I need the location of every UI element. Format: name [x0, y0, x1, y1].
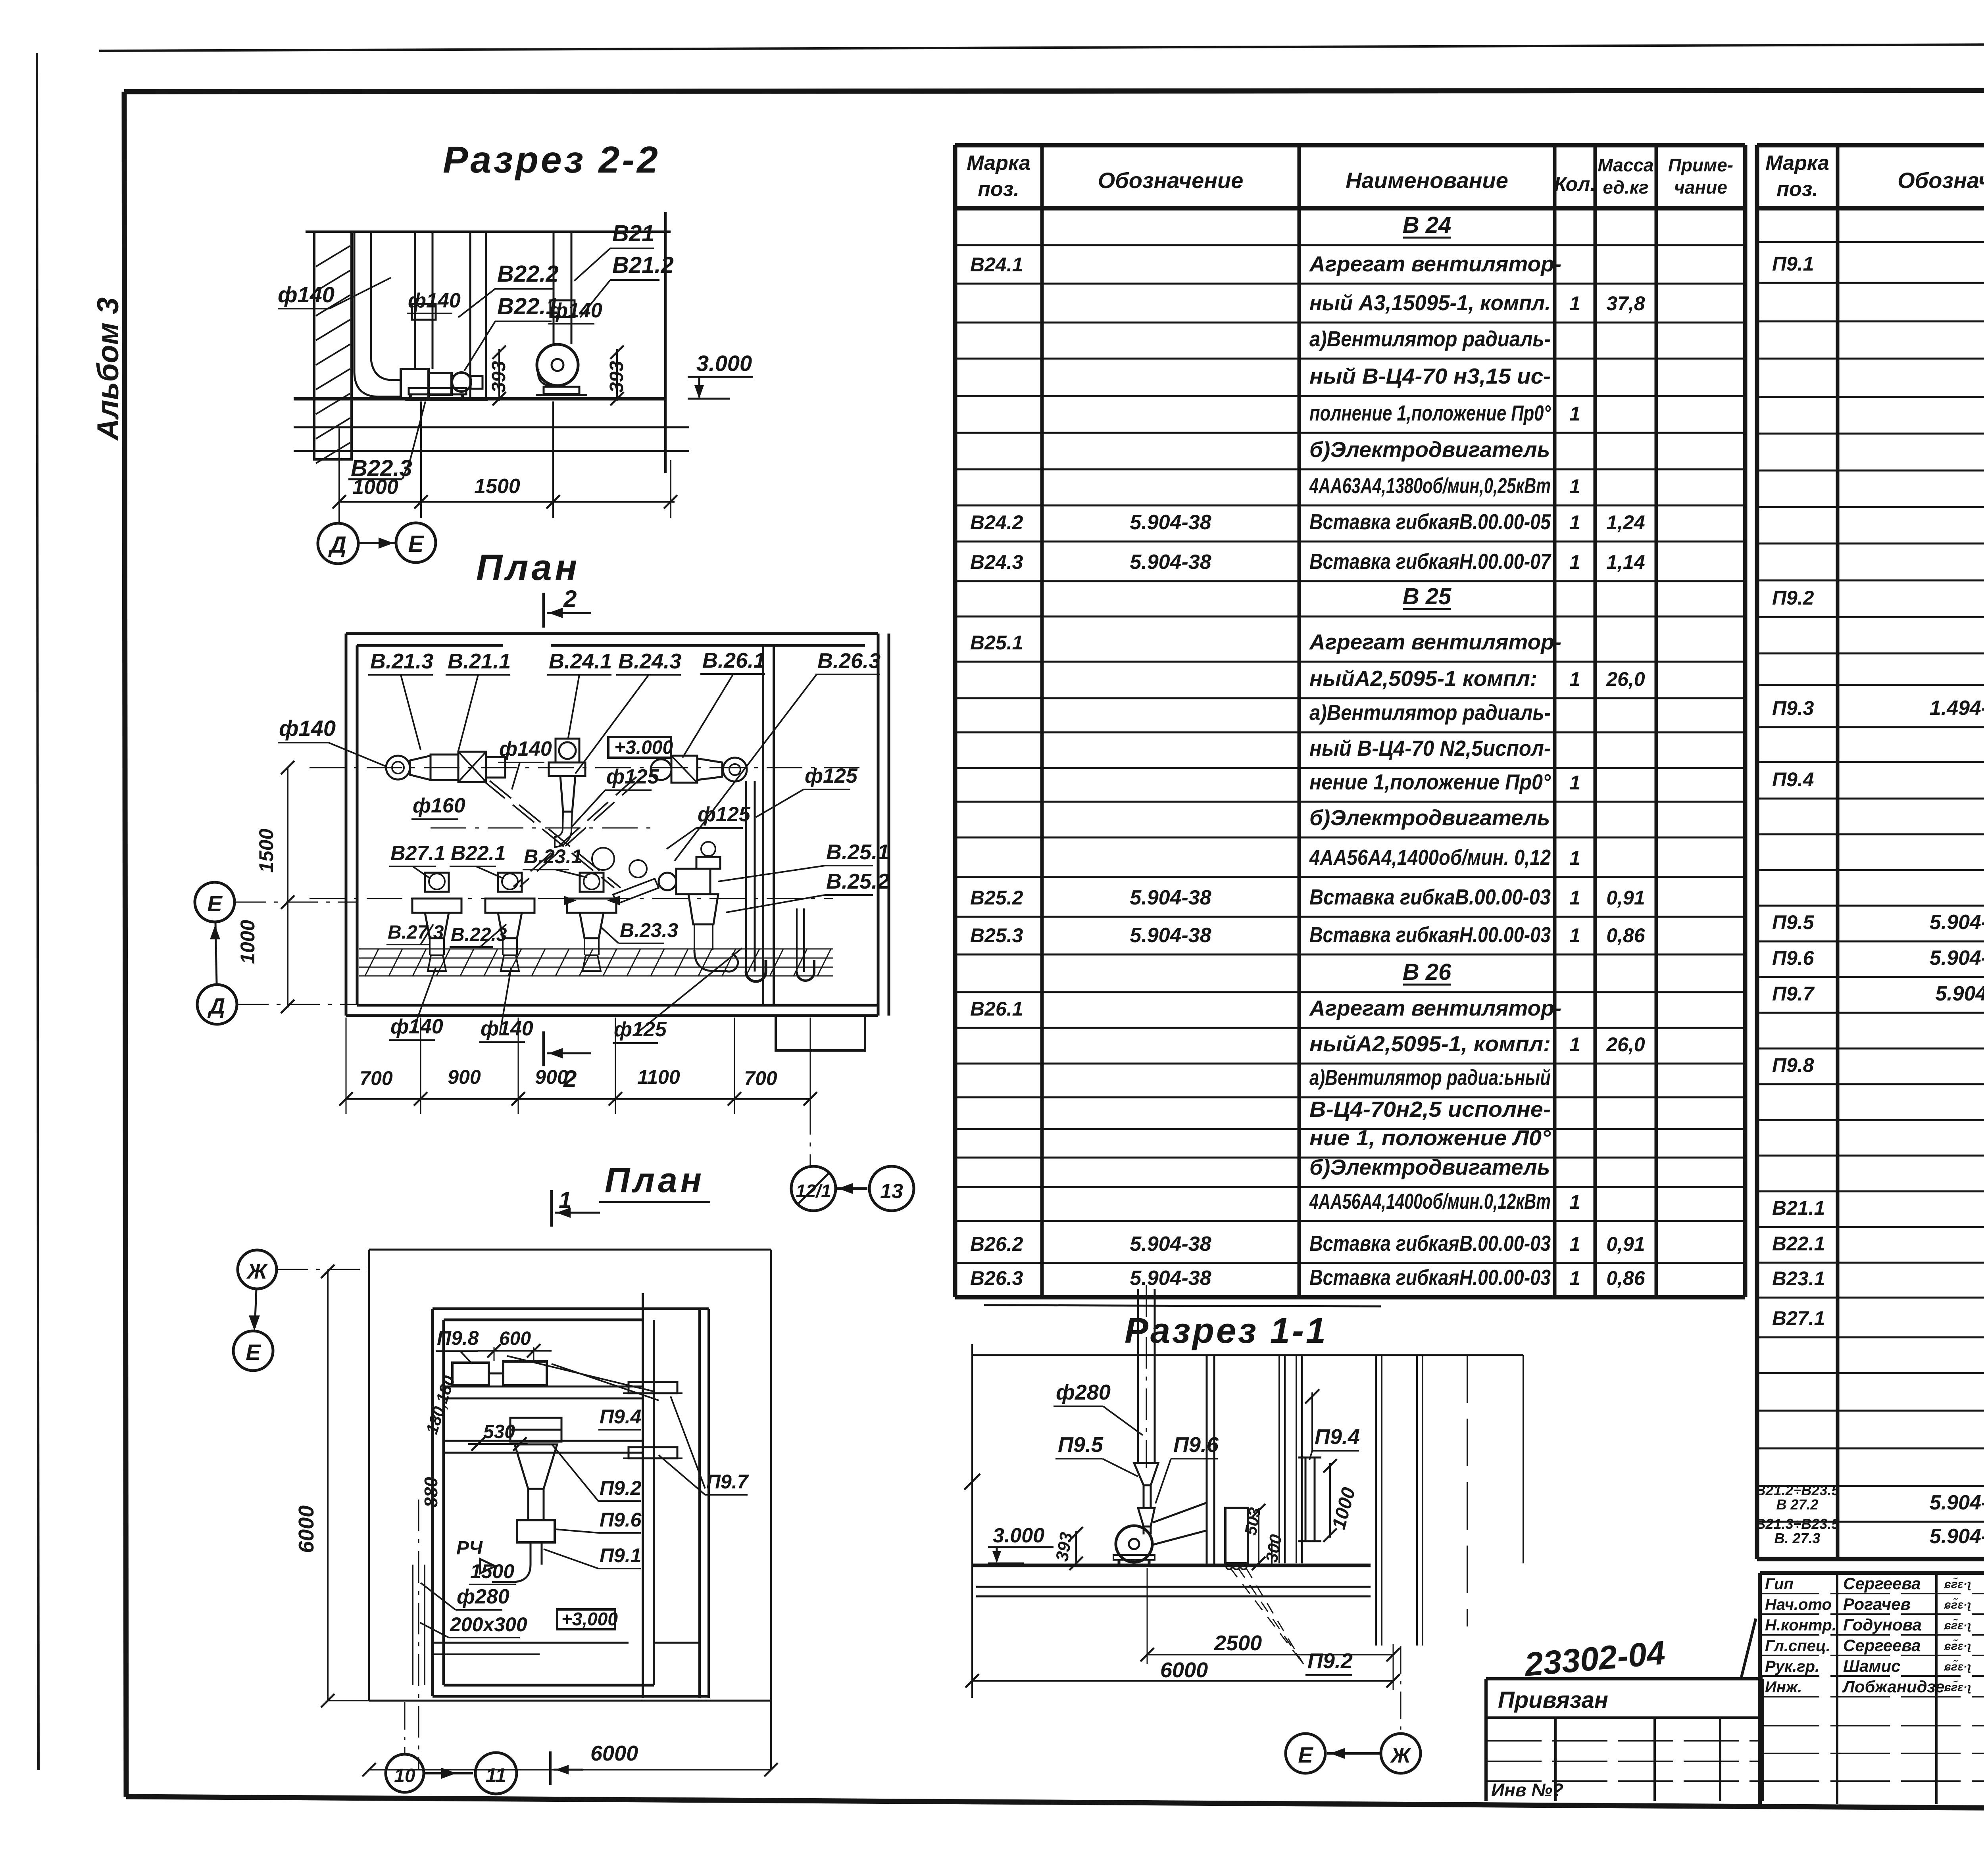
svg-text:1: 1: [1569, 1033, 1580, 1056]
svg-text:поз.: поз.: [978, 178, 1019, 201]
svg-text:5.904-38: 5.904-38: [1930, 1525, 1984, 1548]
svg-text:ɕƨ̃ɛ·ʅ: ɕƨ̃ɛ·ʅ: [1944, 1619, 1971, 1632]
svg-text:26,0: 26,0: [1606, 1033, 1645, 1056]
damper P9.4: [1305, 1457, 1315, 1541]
dim 6000: [972, 1680, 1393, 1682]
dim chain 700-900-900-1100-700: [346, 1098, 810, 1100]
svg-text:П9.4: П9.4: [1315, 1425, 1360, 1449]
svg-text:П9.6: П9.6: [600, 1509, 642, 1531]
floor line: [294, 397, 667, 401]
svg-text:0,91: 0,91: [1606, 887, 1645, 909]
svg-text:1: 1: [1569, 1267, 1580, 1289]
svg-text:5.904-38: 5.904-38: [1930, 1491, 1984, 1514]
svg-text:П9.7: П9.7: [706, 1471, 749, 1493]
axis circle 13: [869, 1166, 914, 1211]
svg-text:+3.000: +3.000: [614, 737, 673, 758]
svg-text:П9.7: П9.7: [1772, 983, 1815, 1005]
svg-text:В.24.3: В.24.3: [618, 649, 681, 673]
axis circle E: [1286, 1734, 1325, 1773]
slash mark: [1741, 1619, 1756, 1678]
axis circle 11: [475, 1753, 517, 1794]
svg-text:П9.2: П9.2: [1307, 1649, 1353, 1673]
svg-text:Гл.спец.: Гл.спец.: [1765, 1637, 1830, 1655]
svg-text:Привязан: Привязан: [1498, 1687, 1608, 1713]
svg-text:В21.2÷В23.5: В21.2÷В23.5: [1755, 1482, 1840, 1498]
svg-text:П9.2: П9.2: [1772, 587, 1814, 609]
svg-text:В.27.3: В.27.3: [388, 922, 444, 943]
svg-text:ɕƨ̃ɛ·ʅ: ɕƨ̃ɛ·ʅ: [1944, 1598, 1971, 1611]
svg-text:2: 2: [563, 586, 577, 612]
fan unit V24.1: [556, 739, 579, 762]
svg-text:Е: Е: [246, 1340, 261, 1365]
svg-text:1: 1: [1569, 475, 1580, 497]
vertical dim 6000: [327, 1269, 329, 1701]
svg-text:В22.2: В22.2: [497, 261, 559, 287]
svg-text:1: 1: [1569, 403, 1580, 425]
left specification table: [955, 145, 1745, 1297]
privyazan box: [1486, 1679, 1763, 1801]
svg-text:3.000: 3.000: [696, 351, 752, 376]
svg-text:5.904-4: 5.904-4: [1935, 982, 1984, 1005]
svg-text:Е: Е: [1298, 1742, 1313, 1767]
svg-text:В21.2: В21.2: [612, 252, 674, 278]
svg-text:900: 900: [448, 1066, 481, 1088]
svg-text:1: 1: [1569, 1191, 1580, 1213]
svg-text:В21.1: В21.1: [1772, 1197, 1825, 1219]
svg-text:В.21.3: В.21.3: [370, 649, 433, 673]
svg-text:полнение 1,положение Пр0°: полнение 1,положение Пр0°: [1309, 401, 1551, 425]
svg-text:В26.3: В26.3: [970, 1267, 1023, 1289]
svg-text:ф140: ф140: [408, 289, 461, 312]
axis circle D: [197, 985, 237, 1024]
svg-text:Разрез 2-2: Разрез 2-2: [443, 139, 660, 181]
svg-text:П9.1: П9.1: [1772, 253, 1814, 275]
lower plan drawing: [233, 1187, 778, 1794]
right specification table: [1755, 145, 1984, 1559]
svg-text:ние 1, положение Л0°: ние 1, положение Л0°: [1309, 1125, 1551, 1150]
axis circle Zh: [1381, 1734, 1421, 1773]
svg-text:Ж: Ж: [246, 1260, 268, 1283]
svg-text:1: 1: [1569, 924, 1580, 947]
svg-text:Обозначение: Обозначение: [1897, 168, 1984, 193]
svg-text:6000: 6000: [1160, 1658, 1208, 1682]
svg-text:В24.1: В24.1: [970, 253, 1023, 276]
svg-text:1500: 1500: [474, 475, 520, 498]
svg-text:Рук.гр.: Рук.гр.: [1765, 1658, 1819, 1675]
svg-text:5.904-38: 5.904-38: [1930, 947, 1984, 970]
svg-text:б)Электродвигатель: б)Электродвигатель: [1309, 437, 1550, 462]
svg-text:В.23.3: В.23.3: [620, 919, 679, 941]
svg-text:37,8: 37,8: [1606, 292, 1645, 315]
svg-text:В25.3: В25.3: [970, 924, 1023, 947]
axis circle E: [233, 1331, 273, 1371]
svg-text:1: 1: [1569, 551, 1580, 573]
svg-text:26,0: 26,0: [1606, 668, 1645, 690]
svg-text:Лобжанидзе: Лобжанидзе: [1842, 1677, 1944, 1696]
svg-text:В22.1: В22.1: [451, 842, 506, 865]
svg-text:ф140: ф140: [481, 1017, 533, 1040]
svg-text:В25.1: В25.1: [970, 632, 1023, 654]
section 1-1 drawing: [964, 1285, 1523, 1773]
svg-text:1100: 1100: [637, 1066, 680, 1088]
room walls: [346, 632, 878, 635]
svg-text:Е: Е: [207, 891, 223, 916]
svg-text:5.904-38: 5.904-38: [1130, 551, 1211, 574]
duct pipe V21: [553, 232, 555, 344]
svg-text:В24.2: В24.2: [970, 511, 1023, 534]
svg-text:П9.8: П9.8: [1772, 1054, 1814, 1076]
svg-text:В-Ц4-70н2,5 исполне-: В-Ц4-70н2,5 исполне-: [1309, 1097, 1551, 1121]
fan P9.1: [1116, 1526, 1152, 1562]
svg-text:В27.1: В27.1: [390, 842, 446, 865]
svg-text:700: 700: [360, 1067, 393, 1089]
drawing frame: [124, 90, 1984, 92]
svg-text:Ж: Ж: [1390, 1744, 1412, 1767]
svg-text:П9.8: П9.8: [437, 1327, 479, 1349]
svg-text:Шамис: Шамис: [1843, 1657, 1901, 1675]
svg-text:В.22.3: В.22.3: [451, 924, 507, 945]
svg-text:В.25.1: В.25.1: [826, 840, 889, 864]
axis circle E: [195, 882, 235, 922]
svg-text:Рогачев: Рогачев: [1843, 1595, 1911, 1613]
svg-text:5.904-38: 5.904-38: [1930, 911, 1984, 934]
svg-text:В.26.3: В.26.3: [817, 649, 880, 673]
svg-text:ныйА2,5095-1 компл:: ныйА2,5095-1 компл:: [1309, 666, 1537, 691]
svg-text:П9.2: П9.2: [600, 1477, 642, 1499]
svg-text:В. 27.3: В. 27.3: [1774, 1530, 1820, 1546]
svg-text:Вставка гибкаяН.00.00-07: Вставка гибкаяН.00.00-07: [1309, 549, 1551, 574]
svg-text:ф140: ф140: [278, 282, 335, 307]
unit P9.8: [452, 1363, 489, 1385]
svg-text:1: 1: [1569, 887, 1580, 909]
svg-text:ɕƨ̃ɛ·ʅ: ɕƨ̃ɛ·ʅ: [1944, 1639, 1971, 1653]
svg-text:Нач.ото: Нач.ото: [1765, 1596, 1832, 1613]
svg-text:Альбом 3: Альбом 3: [91, 298, 125, 441]
svg-text:393: 393: [488, 361, 509, 393]
svg-text:1000: 1000: [352, 476, 398, 499]
svg-text:П9.4: П9.4: [600, 1406, 641, 1428]
svg-text:0,86: 0,86: [1606, 924, 1646, 947]
svg-text:600: 600: [499, 1328, 531, 1349]
svg-text:1: 1: [1569, 847, 1580, 869]
svg-text:Сергеева: Сергеева: [1843, 1574, 1921, 1593]
dim 2500: [1147, 1654, 1393, 1655]
svg-text:5.904-38: 5.904-38: [1130, 886, 1211, 909]
svg-text:В23.1: В23.1: [1772, 1267, 1825, 1290]
svg-text:1,14: 1,14: [1606, 551, 1645, 573]
svg-text:Гип: Гип: [1765, 1575, 1794, 1593]
svg-text:В21: В21: [612, 221, 654, 246]
svg-text:чание: чание: [1674, 177, 1727, 198]
svg-text:ф140: ф140: [550, 299, 602, 322]
svg-text:В26.2: В26.2: [970, 1233, 1023, 1255]
svg-text:1: 1: [1569, 511, 1580, 534]
fan unit V22.1: [401, 369, 429, 399]
svg-text:Марка: Марка: [967, 152, 1030, 175]
left table bottom double line: [984, 1305, 1381, 1306]
svg-text:1500: 1500: [470, 1560, 514, 1582]
svg-text:ф140: ф140: [279, 716, 336, 741]
svg-text:Инв №?: Инв №?: [1491, 1780, 1563, 1800]
svg-text:ф280: ф280: [457, 1585, 509, 1608]
svg-text:Обозначение: Обозначение: [1098, 168, 1244, 193]
svg-text:4АА56А4,1400об/мин.0,12кВт: 4АА56А4,1400об/мин.0,12кВт: [1309, 1189, 1551, 1214]
heater duct columns: [1206, 1355, 1208, 1567]
svg-text:0,86: 0,86: [1606, 1267, 1646, 1289]
section mark 2 top: [542, 593, 545, 628]
svg-text:В27.1: В27.1: [1772, 1307, 1825, 1329]
room walls: [433, 1308, 709, 1310]
svg-text:1: 1: [1569, 1233, 1580, 1255]
svg-text:ɕƨ̃ɛ·ʅ: ɕƨ̃ɛ·ʅ: [1944, 1660, 1971, 1673]
svg-text:Масса: Масса: [1598, 155, 1653, 175]
svg-text:В26.1: В26.1: [970, 998, 1023, 1020]
sheet top edge line: [99, 42, 1984, 51]
svg-text:ф140: ф140: [499, 737, 552, 760]
svg-text:1: 1: [1569, 668, 1580, 690]
svg-text:В 27.2: В 27.2: [1776, 1496, 1818, 1513]
svg-text:В25.2: В25.2: [970, 887, 1023, 909]
fan unit V26.1: [651, 759, 671, 780]
svg-text:12/1: 12/1: [796, 1181, 831, 1201]
svg-text:В.24.1: В.24.1: [549, 649, 612, 673]
svg-text:Годунова: Годунова: [1843, 1615, 1922, 1634]
svg-text:ф160: ф160: [413, 794, 465, 817]
svg-text:5.904-38: 5.904-38: [1130, 924, 1211, 947]
outer boundary: [369, 1249, 771, 1251]
svg-text:В.26.1: В.26.1: [702, 649, 765, 672]
svg-text:В 25: В 25: [1403, 584, 1451, 609]
svg-text:4АА63А4,1380об/мин,0,25кВт: 4АА63А4,1380об/мин,0,25кВт: [1309, 473, 1551, 498]
axis circle Zh: [238, 1250, 277, 1289]
svg-text:В.21.1: В.21.1: [448, 649, 511, 673]
svg-text:ф125: ф125: [698, 803, 751, 826]
fan unit V25.1: [659, 873, 676, 890]
svg-text:ɕƨ̃ɛ·ʅ: ɕƨ̃ɛ·ʅ: [1944, 1577, 1971, 1591]
svg-text:200х300: 200х300: [450, 1613, 527, 1636]
svg-text:1500: 1500: [255, 829, 277, 873]
pipe f125 riser: [745, 781, 747, 972]
bottom dim 6000: [369, 1769, 771, 1770]
svg-text:План: План: [605, 1160, 705, 1200]
svg-text:900: 900: [535, 1066, 568, 1088]
svg-text:В21.3÷В23.5: В21.3÷В23.5: [1755, 1516, 1840, 1532]
svg-text:10: 10: [394, 1765, 415, 1786]
svg-text:ф280: ф280: [1056, 1381, 1111, 1404]
svg-text:В24.3: В24.3: [970, 551, 1023, 573]
svg-text:1.494-25: 1.494-25: [1930, 697, 1984, 720]
fan unit V21: [386, 756, 410, 780]
svg-text:3.000: 3.000: [993, 1524, 1044, 1547]
svg-text:В 26: В 26: [1403, 959, 1451, 985]
diagonal ducts: [483, 781, 614, 888]
hatched wall column: [314, 232, 352, 459]
svg-text:В22.1: В22.1: [1772, 1233, 1825, 1255]
svg-text:РЧ: РЧ: [456, 1538, 483, 1559]
svg-text:П9.6: П9.6: [1173, 1433, 1219, 1457]
svg-text:Сергеева: Сергеева: [1843, 1636, 1921, 1655]
svg-text:11: 11: [486, 1764, 506, 1786]
svg-text:1: 1: [1569, 772, 1580, 794]
unit P9.2 stack: [510, 1418, 561, 1430]
svg-text:+3,000: +3,000: [561, 1609, 618, 1629]
svg-text:ɕƨ̃ɛ·ʅ: ɕƨ̃ɛ·ʅ: [1944, 1680, 1971, 1694]
svg-text:2500: 2500: [1214, 1631, 1262, 1655]
title block: [1760, 1573, 1984, 1807]
heater P9.2: [1225, 1508, 1248, 1563]
svg-text:б)Электродвигатель: б)Электродвигатель: [1309, 805, 1550, 830]
svg-text:Е: Е: [408, 531, 425, 557]
svg-text:План: План: [476, 547, 580, 588]
svg-text:0,91: 0,91: [1606, 1233, 1645, 1255]
fan units V27.1 V22.1 V23.1: [429, 874, 445, 889]
svg-text:530: 530: [483, 1421, 515, 1442]
svg-text:Вставка гибкаяН.00.00-03: Вставка гибкаяН.00.00-03: [1309, 922, 1551, 947]
svg-text:1: 1: [1569, 292, 1580, 315]
svg-text:6000: 6000: [590, 1742, 638, 1765]
svg-text:П9.5: П9.5: [1058, 1433, 1104, 1457]
svg-text:13: 13: [880, 1180, 903, 1203]
duct pipe f140 mid: [414, 232, 416, 369]
svg-text:П9.6: П9.6: [1772, 947, 1815, 969]
svg-text:5.904-38: 5.904-38: [1130, 511, 1211, 534]
axis circle 10: [386, 1754, 424, 1792]
svg-text:а)Вентилятор радиа:ьный: а)Вентилятор радиа:ьный: [1309, 1065, 1551, 1090]
axis circle D: [338, 502, 340, 523]
svg-text:4АА56А4,1400об/мин. 0,12: 4АА56А4,1400об/мин. 0,12: [1309, 845, 1551, 870]
svg-text:П9.1: П9.1: [600, 1544, 641, 1567]
svg-text:нение 1,положение Пр0°: нение 1,положение Пр0°: [1309, 770, 1551, 794]
svg-text:В.25.2: В.25.2: [826, 870, 889, 893]
svg-text:1: 1: [559, 1187, 571, 1213]
bay wall: [469, 232, 471, 399]
svg-text:6000: 6000: [294, 1505, 318, 1553]
section 2-2 drawing: [278, 139, 753, 564]
svg-text:393: 393: [606, 361, 627, 393]
svg-text:5.904-38: 5.904-38: [1130, 1233, 1211, 1256]
damper P9.4 plate: [629, 1382, 677, 1393]
svg-text:а)Вентилятор радиаль-: а)Вентилятор радиаль-: [1309, 326, 1551, 351]
svg-text:Агрегат вентилятор-: Агрегат вентилятор-: [1309, 252, 1561, 276]
svg-text:Агрегат вентилятор-: Агрегат вентилятор-: [1309, 996, 1561, 1020]
svg-text:Марка: Марка: [1765, 152, 1829, 175]
svg-text:5.904-38: 5.904-38: [1130, 1267, 1211, 1290]
svg-text:Приме-: Приме-: [1668, 155, 1733, 175]
svg-text:Вставка гибкаВ.00.00-03: Вставка гибкаВ.00.00-03: [1309, 885, 1551, 909]
plan drawing (middle): [195, 547, 914, 1211]
svg-text:ф125: ф125: [606, 765, 659, 788]
svg-text:700: 700: [744, 1067, 777, 1089]
dim chain 1000/1500: [339, 501, 675, 503]
floor line: [972, 1564, 1371, 1567]
axis circle 12/1: [791, 1166, 836, 1211]
svg-text:880: 880: [421, 1477, 441, 1507]
axis circle E: [396, 523, 436, 563]
ceiling line: [306, 230, 671, 233]
svg-text:ед.кг: ед.кг: [1603, 177, 1648, 198]
svg-text:Д: Д: [328, 532, 346, 558]
pipe f280: [1137, 1289, 1139, 1463]
svg-text:1000: 1000: [236, 920, 259, 964]
svg-text:Вставка гибкаяН.00.00-03: Вставка гибкаяН.00.00-03: [1309, 1265, 1551, 1290]
dim 393 left: [498, 349, 500, 401]
duct pipe f140 left: [354, 232, 356, 373]
svg-text:ный В-Ц4-70 н3,15 ис-: ный В-Ц4-70 н3,15 ис-: [1309, 364, 1551, 388]
svg-text:Н.контр.: Н.контр.: [1765, 1617, 1836, 1634]
svg-text:поз.: поз.: [1776, 178, 1818, 201]
svg-text:Наименование: Наименование: [1346, 168, 1508, 193]
svg-text:В 24: В 24: [1403, 212, 1451, 238]
svg-text:Кол.: Кол.: [1554, 173, 1596, 195]
svg-text:б)Электродвигатель: б)Электродвигатель: [1309, 1155, 1550, 1179]
svg-text:ф125: ф125: [805, 764, 858, 787]
svg-text:П9.5: П9.5: [1772, 911, 1815, 933]
svg-text:Агрегат вентилятор-: Агрегат вентилятор-: [1309, 630, 1561, 654]
svg-text:а)Вентилятор радиаль-: а)Вентилятор радиаль-: [1309, 700, 1551, 725]
svg-text:ный В-Ц4-70 N2,5испол-: ный В-Ц4-70 N2,5испол-: [1309, 736, 1551, 760]
sheet left edge line: [37, 53, 38, 1770]
fan V21.2 scroll: [537, 344, 578, 386]
svg-text:П9.4: П9.4: [1772, 768, 1814, 791]
svg-text:ныйА2,5095-1, компл:: ныйА2,5095-1, компл:: [1309, 1031, 1551, 1056]
svg-text:1,24: 1,24: [1606, 511, 1645, 534]
svg-text:В.23.1: В.23.1: [524, 845, 582, 868]
svg-text:ный А3,15095-1, компл.: ный А3,15095-1, компл.: [1309, 290, 1551, 315]
svg-text:Д: Д: [208, 993, 225, 1018]
svg-text:Вставка гибкаяВ.00.00-05: Вставка гибкаяВ.00.00-05: [1309, 509, 1551, 534]
svg-text:Инж.: Инж.: [1765, 1678, 1802, 1696]
svg-text:Вставка гибкаяВ.00.00-03: Вставка гибкаяВ.00.00-03: [1309, 1231, 1551, 1256]
svg-text:П9.3: П9.3: [1772, 697, 1814, 719]
section mark 1: [550, 1190, 553, 1227]
